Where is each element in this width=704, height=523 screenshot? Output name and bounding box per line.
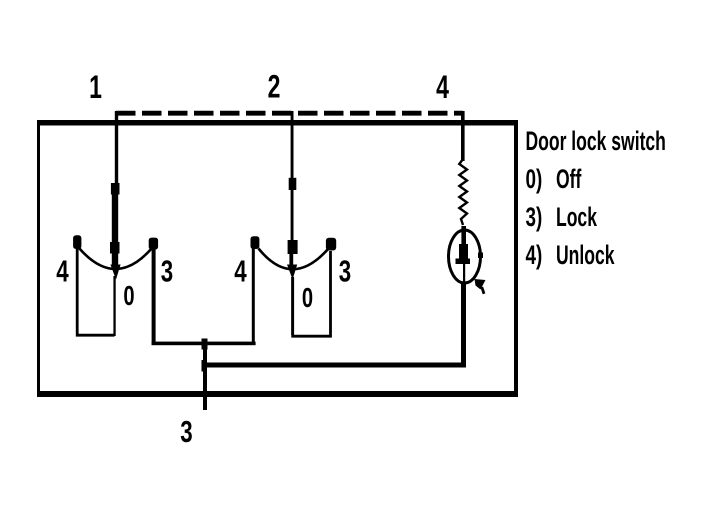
svg-text:4): 4) xyxy=(526,240,543,270)
dashed gang line xyxy=(116,111,463,116)
switch S2 bracket 0-3 xyxy=(293,251,331,336)
switch S1 pole arrow xyxy=(110,265,120,280)
switch S2 arc xyxy=(259,249,329,270)
wire terminal 4 upper xyxy=(461,111,465,161)
junction dot node 3 xyxy=(202,339,208,350)
switch S1 bracket 4-0 xyxy=(77,248,114,335)
legend item 0 Off xyxy=(526,163,582,194)
svg-text:3: 3 xyxy=(180,414,192,448)
switch S2 lead 4 xyxy=(252,243,255,343)
svg-text:3: 3 xyxy=(339,254,351,288)
legend item 4 Unlock xyxy=(526,239,615,270)
switch S1 arc xyxy=(79,248,152,269)
svg-text:Door lock switch: Door lock switch xyxy=(526,125,666,156)
switch S1 contact 3 blob xyxy=(149,238,158,250)
svg-text:4: 4 xyxy=(56,254,68,288)
svg-text:4: 4 xyxy=(234,254,246,288)
contact dot switch S2 pole xyxy=(288,240,298,254)
svg-text:0): 0) xyxy=(526,164,543,194)
junction dot wire 1 xyxy=(111,183,120,195)
switch S2 pole arrow xyxy=(287,265,297,280)
switch S1 lead 3 xyxy=(152,249,156,345)
switch body outline xyxy=(37,120,518,397)
svg-text:1: 1 xyxy=(89,69,102,105)
switch S1 contact 4 blob xyxy=(73,235,81,249)
svg-text:3): 3) xyxy=(526,202,543,232)
switch S2 pole lower lead xyxy=(291,277,294,335)
svg-text:Unlock: Unlock xyxy=(556,239,615,270)
motor M1 rotation arrow xyxy=(475,279,486,294)
wire terminal 2 upper xyxy=(291,111,294,179)
svg-text:0: 0 xyxy=(123,281,134,312)
wire terminal 1 upper xyxy=(115,111,118,185)
resistor coil R1 xyxy=(459,159,467,225)
svg-text:Lock: Lock xyxy=(556,201,597,232)
switch S2 contact 3 blob xyxy=(326,238,336,251)
switch S1 pole lower lead xyxy=(113,276,115,336)
node 3 drop wire xyxy=(203,343,207,410)
contact dot switch S1 pole xyxy=(110,242,120,254)
junction dot wire 2 xyxy=(289,178,297,190)
junction dot node 3 lower xyxy=(202,360,208,372)
svg-text:Off: Off xyxy=(556,163,582,194)
motor M1 body xyxy=(449,230,481,283)
svg-text:3: 3 xyxy=(161,254,173,288)
svg-text:4: 4 xyxy=(436,69,449,105)
svg-text:0: 0 xyxy=(302,283,313,314)
motor M1 terminal tick xyxy=(478,253,483,259)
legend item 3 Lock xyxy=(526,201,598,232)
motor M1 numeral 1 xyxy=(456,244,471,284)
switch S2 pole mid lead xyxy=(289,252,293,266)
svg-text:2: 2 xyxy=(268,69,281,105)
motor return wire xyxy=(203,363,466,368)
motor M1 internal lead xyxy=(461,226,466,262)
motor M1 lower lead xyxy=(461,283,466,364)
wire 2 lower xyxy=(291,190,294,242)
switch S2 contact 4 blob xyxy=(251,236,260,249)
wire S1-3 to S2-4 xyxy=(152,342,256,346)
wire 1 thick segment xyxy=(112,194,118,267)
